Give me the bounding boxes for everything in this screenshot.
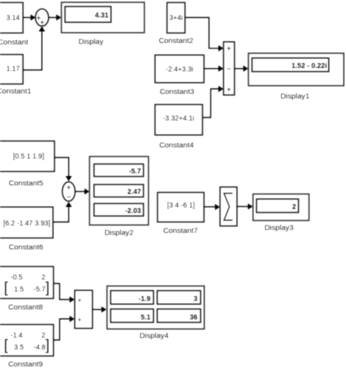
sum block circle (group 3)	[62, 182, 75, 202]
svg-text:Constant: Constant	[0, 38, 29, 47]
wire Constant8 to sum (right, down, right)	[54, 284, 75, 303]
constant block "Constant" (3.14)	[0, 3, 23, 34]
svg-text:+: +	[226, 85, 231, 94]
display block "Display3" (2)	[253, 194, 309, 221]
svg-text:2: 2	[292, 204, 296, 211]
svg-text:Display: Display	[79, 37, 104, 46]
svg-text:[3 4 -6 1]: [3 4 -6 1]	[167, 203, 195, 210]
svg-text:Display2: Display2	[104, 228, 133, 237]
constant block "Constant6" ([6.2 -1.47 3.93])	[0, 207, 53, 238]
svg-text:-5.7: -5.7	[129, 168, 141, 175]
wire sum to Display1	[235, 65, 249, 72]
svg-text:Display3: Display3	[264, 223, 293, 232]
display block "Display" (4.31)	[61, 2, 144, 32]
svg-text:-1.9: -1.9	[138, 296, 150, 303]
wire Constant4 to sum (right, up)	[203, 86, 224, 118]
svg-text:1.5: 1.5	[14, 287, 24, 294]
svg-text:Constant9: Constant9	[8, 360, 43, 369]
sum block rectangle (group 2)	[224, 42, 235, 95]
constant block "Constant2" (3+4i)	[167, 3, 185, 34]
svg-text:2: 2	[42, 333, 46, 340]
svg-text:[0.5 1 1.9]: [0.5 1 1.9]	[13, 154, 44, 161]
svg-text:+: +	[226, 44, 231, 53]
svg-text:Constant3: Constant3	[160, 87, 195, 96]
svg-text:5.1: 5.1	[141, 315, 151, 322]
svg-text:Constant6: Constant6	[9, 243, 44, 252]
svg-text:4.31: 4.31	[95, 13, 109, 20]
svg-text:+: +	[77, 297, 81, 304]
constant block "Constant7" ([3 4 -6 1])	[158, 192, 205, 222]
svg-text:−: −	[66, 193, 71, 202]
constant block "Constant1" (1.17)	[0, 55, 23, 85]
svg-text:36: 36	[190, 315, 198, 322]
svg-text:Constant7: Constant7	[163, 226, 198, 235]
svg-text:+: +	[66, 183, 71, 192]
wire Constant6 to sum (right then up)	[53, 202, 72, 222]
constant block "Constant5" ([0.5 1 1.9])	[0, 141, 55, 172]
svg-text:Constant8: Constant8	[8, 303, 43, 312]
wire Constant5 to sum (right then down)	[55, 158, 73, 182]
svg-text:−: −	[226, 65, 231, 74]
svg-text:-3.32+4.1i: -3.32+4.1i	[163, 116, 195, 123]
svg-text:Constant2: Constant2	[159, 36, 194, 45]
svg-text:]: ]	[45, 280, 49, 297]
wire Constant1 to sum (right then up)	[23, 26, 45, 70]
constant block "Constant3" (-2.4+3.3i)	[155, 55, 204, 83]
svg-text:-0.5: -0.5	[11, 275, 23, 282]
constant block "Constant4" (-3.32+4.1i)	[155, 105, 203, 136]
svg-text:+: +	[40, 18, 45, 27]
svg-text:+: +	[77, 317, 81, 324]
svg-text:3: 3	[194, 296, 198, 303]
svg-text:1.52 - 0.22i: 1.52 - 0.22i	[291, 63, 326, 70]
wire Constant2 to sum (right, down)	[185, 18, 223, 52]
svg-text:3.14: 3.14	[6, 15, 20, 22]
svg-text:Constant4: Constant4	[159, 141, 194, 150]
display block "Display1" (1.52 - 0.22i)	[248, 53, 343, 85]
svg-text:-1.4: -1.4	[11, 333, 23, 340]
wire sum to Display4	[93, 306, 107, 313]
svg-text:-2.03: -2.03	[125, 208, 141, 215]
wire Constant7 to sigma	[204, 204, 220, 211]
sum-of-elements block (sigma)	[220, 187, 237, 226]
svg-text:2.47: 2.47	[127, 189, 141, 196]
svg-text:2: 2	[42, 275, 46, 282]
svg-text:-4.8: -4.8	[34, 345, 46, 352]
wire sigma to Display3	[237, 203, 253, 210]
constant block "Constant9" (matrix [-1.4 2; 3.5 -4.8])	[0, 325, 54, 357]
svg-text:Constant5: Constant5	[9, 179, 44, 188]
svg-text:]: ]	[45, 337, 49, 354]
display block "Display2" (-5.7 / 2.47 / -2.03)	[90, 157, 149, 226]
svg-text:Display4: Display4	[139, 331, 168, 340]
display block "Display4" (2x2 matrix)	[107, 286, 204, 329]
wire sum to Display	[49, 14, 62, 21]
wire sum to Display2	[75, 188, 89, 195]
svg-text:Constant1: Constant1	[0, 87, 31, 96]
sum block circle (group 1)	[35, 9, 48, 27]
sum block rectangle (group 5)	[75, 290, 93, 328]
svg-text:3.5: 3.5	[14, 345, 24, 352]
svg-text:[6.2 -1.47 3.93]: [6.2 -1.47 3.93]	[3, 221, 50, 228]
svg-text:1.17: 1.17	[6, 66, 20, 73]
constant block "Constant8" (matrix [-0.5 2; 1.6 -5.7])	[0, 267, 54, 299]
svg-text:-2.4+3.3i: -2.4+3.3i	[166, 67, 194, 74]
svg-text:3+4i: 3+4i	[169, 15, 183, 22]
svg-text:Display1: Display1	[280, 92, 309, 101]
wire Constant to sum	[23, 14, 36, 21]
wire Constant9 to sum (right, up, right)	[54, 316, 75, 340]
svg-text:-5.7: -5.7	[34, 287, 46, 294]
wire Constant3 to sum	[204, 65, 223, 72]
